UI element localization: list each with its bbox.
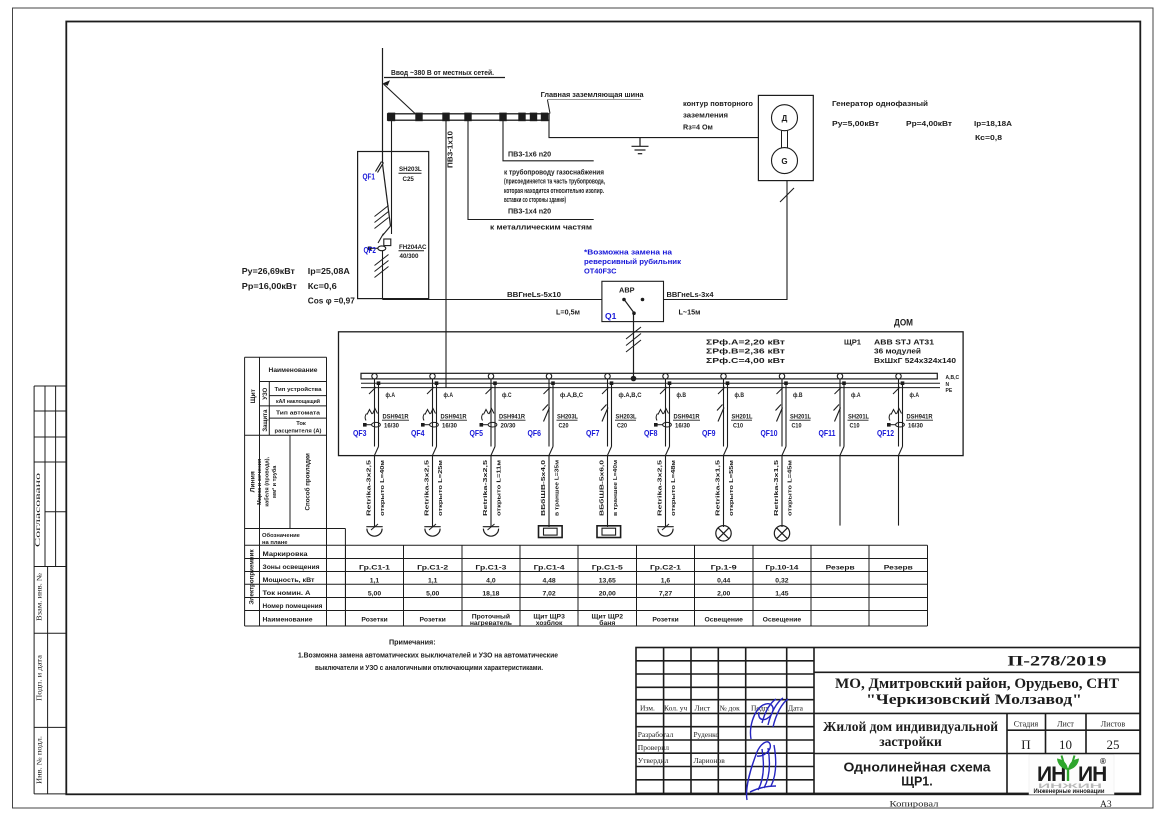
svg-text:7,02: 7,02 [542, 590, 555, 597]
svg-text:А3: А3 [1100, 800, 1112, 810]
signature scribbles [747, 698, 788, 800]
svg-text:ВБбШВ-5х6,0: ВБбШВ-5х6,0 [599, 460, 606, 516]
meter board box [358, 152, 429, 299]
breaker QF5 DSH941R [482, 409, 497, 428]
svg-text:Рр=4,00кВт: Рр=4,00кВт [906, 119, 953, 128]
breaker QF9 SH201L [717, 405, 724, 422]
svg-text:Освещение: Освещение [763, 617, 802, 624]
breaker QF1 [376, 162, 391, 227]
load symbol distribution board &#1043;&#1088;.&#1057;1-4 [539, 526, 563, 538]
svg-text:хозблок: хозблок [536, 619, 563, 627]
svg-text:Гр.С1-2: Гр.С1-2 [417, 564, 448, 571]
svg-text:Кол. уч: Кол. уч [664, 704, 688, 713]
svg-text:DSH941R: DSH941R [441, 414, 468, 420]
svg-text:1.Возможна замена автоматическ: 1.Возможна замена автоматических выключа… [298, 650, 558, 659]
wire QF6 L and N drops [548, 379, 550, 447]
svg-text:ΣРф.А=2,20 кВт: ΣРф.А=2,20 кВт [706, 338, 785, 347]
load symbol distribution board &#1043;&#1088;.&#1057;1-5 [597, 526, 621, 538]
wire: outgoing feeder &#1043;&#1088;.1-9 [723, 455, 725, 527]
svg-text:Ввод ~380 В от местных сетей.: Ввод ~380 В от местных сетей. [391, 68, 494, 77]
svg-text:открыто L=48м: открыто L=48м [671, 460, 677, 516]
svg-text:QF6: QF6 [528, 428, 542, 438]
bus А,В,С [361, 373, 937, 379]
svg-text:C20: C20 [559, 423, 570, 429]
svg-text:мм² и труба: мм² и труба [271, 465, 278, 498]
svg-text:ф.В: ф.В [677, 392, 687, 399]
svg-text:(присоединяется та часть трубо: (присоединяется та часть трубопровода, [504, 177, 605, 186]
svg-text:открыто L=11м: открыто L=11м [497, 460, 503, 516]
svg-text:QF3: QF3 [353, 428, 367, 438]
wire QF7 L and N drops [607, 379, 609, 447]
svg-text:SH201L: SH201L [790, 414, 811, 420]
wire QF12 L and N drops [898, 379, 900, 447]
svg-text:застройки: застройки [879, 734, 942, 749]
svg-text:Розетки: Розетки [652, 617, 678, 624]
svg-text:25: 25 [1107, 737, 1120, 752]
svg-text:18,18: 18,18 [482, 590, 499, 597]
load symbol socket &#1043;&#1088;.&#1057;1-2 [424, 527, 440, 537]
svg-text:ф.С: ф.С [502, 392, 512, 399]
svg-text:ΣРф.С=4,00 кВт: ΣРф.С=4,00 кВт [706, 356, 785, 365]
logo ИНЖИН [1029, 755, 1114, 795]
svg-text:Retrika-3х2,5: Retrika-3х2,5 [425, 459, 431, 516]
svg-text:®: ® [1100, 757, 1106, 766]
svg-text:в траншее L=35м: в траншее L=35м [555, 460, 561, 516]
svg-text:Обозначение: Обозначение [262, 532, 301, 539]
svg-text:QF10: QF10 [761, 428, 778, 438]
wire QF5 L and N drops [490, 379, 492, 447]
svg-text:0,32: 0,32 [775, 577, 788, 584]
svg-text:Генератор однофазный: Генератор однофазный [832, 99, 928, 108]
svg-text:нагреватель: нагреватель [470, 620, 512, 627]
svg-text:DSH941R: DSH941R [674, 414, 701, 420]
svg-text:Марка и сечения: Марка и сечения [257, 459, 263, 505]
svg-text:Однолинейная схема: Однолинейная схема [844, 761, 992, 775]
svg-text:Резерв: Резерв [884, 564, 913, 571]
breaker QF11 SH201L [834, 405, 841, 422]
wire: outgoing feeder &#1043;&#1088;.&#1057;1-5 [607, 455, 609, 527]
svg-text:Инженерные инновации: Инженерные инновации [1034, 788, 1105, 795]
left attribute strip table [34, 386, 66, 794]
svg-text:Гр.10-14: Гр.10-14 [765, 564, 798, 571]
svg-text:Инв. № подл.: Инв. № подл. [36, 736, 44, 784]
svg-text:Гр.С1-4: Гр.С1-4 [534, 564, 565, 571]
svg-text:Взам. инв. №: Взам. инв. № [36, 573, 44, 621]
svg-text:Розетки: Розетки [361, 617, 387, 624]
svg-text:*Возможна замена на: *Возможна замена на [584, 248, 673, 257]
svg-text:Зоны освещения: Зоны освещения [263, 564, 320, 571]
svg-text:SH201L: SH201L [848, 414, 869, 420]
svg-text:Кс=0,8: Кс=0,8 [975, 133, 1002, 142]
svg-text:ф.А: ф.А [444, 392, 454, 399]
breaker QF4 DSH941R [423, 409, 438, 428]
svg-text:Электроприемник: Электроприемник [249, 549, 256, 605]
svg-text:16/30: 16/30 [675, 423, 691, 429]
svg-text:А,В,С: А,В,С [946, 375, 960, 381]
svg-text:Главная заземляющая шина: Главная заземляющая шина [541, 90, 645, 99]
svg-text:Retrika-3х1,5: Retrika-3х1,5 [774, 459, 780, 516]
branch QF11 tap on bus [837, 374, 842, 379]
svg-text:Розетки: Розетки [420, 617, 446, 624]
svg-text:Лист: Лист [695, 704, 711, 713]
svg-text:УЗО: УЗО [263, 387, 269, 399]
wire: ПВЗ-1x10 PE conductor to panel [445, 121, 447, 388]
svg-text:реверсивный рубильник: реверсивный рубильник [584, 257, 681, 266]
wire: АВР output drop to panel bus [633, 322, 635, 379]
consumer table grid [245, 545, 928, 626]
svg-text:Освещение: Освещение [704, 617, 743, 624]
wire QF9 L and N drops [723, 379, 725, 447]
wire: outgoing feeder &#1043;&#1088;.&#1057;2-1 [665, 455, 667, 527]
svg-text:C25: C25 [403, 176, 415, 183]
leader arrow to supply line [383, 80, 391, 86]
svg-text:ВВГнеLs-5х10: ВВГнеLs-5х10 [507, 290, 561, 299]
svg-text:1,1: 1,1 [370, 577, 380, 584]
svg-text:ПВ3-1х4 n20: ПВ3-1х4 n20 [508, 207, 551, 216]
svg-text:АВР: АВР [619, 286, 635, 295]
wire: reserve feeder QF11 [839, 455, 841, 525]
main earthing bus ГЗШ [388, 114, 549, 120]
svg-text:открыто L=45м: открыто L=45м [788, 460, 794, 516]
svg-text:5,00: 5,00 [368, 590, 381, 597]
wire QF10 L and N drops [781, 379, 783, 447]
load symbol lamp &#1043;&#1088;.10-14 [774, 526, 789, 541]
svg-text:40/300: 40/300 [400, 253, 419, 260]
svg-text:Тип автомата: Тип автомата [276, 411, 321, 417]
svg-text:ВВГнеLs-3х4: ВВГнеLs-3х4 [667, 290, 714, 299]
svg-text:7,27: 7,27 [659, 590, 672, 597]
svg-text:Руденко: Руденко [694, 730, 720, 739]
svg-text:Рр=16,00кВт: Рр=16,00кВт [242, 281, 297, 291]
branch QF3 tap on bus [372, 374, 377, 379]
branch QF10 tap on bus [779, 374, 784, 379]
svg-text:1,6: 1,6 [661, 577, 671, 584]
svg-text:Маркировка: Маркировка [263, 551, 309, 558]
breaker QF10 SH201L [776, 405, 783, 422]
title block grid [636, 648, 1140, 794]
svg-text:открыто L=55м: открыто L=55м [729, 460, 735, 516]
svg-text:Д: Д [782, 114, 788, 123]
contact slash QF11 [835, 387, 842, 394]
svg-text:DSH941R: DSH941R [499, 414, 526, 420]
svg-text:C20: C20 [617, 423, 628, 429]
wire: bus to repeated earthing contour and generator [549, 121, 758, 138]
svg-text:Ток номин. А: Ток номин. А [263, 590, 312, 597]
svg-text:C10: C10 [850, 423, 861, 429]
svg-text:ЩР1: ЩР1 [844, 338, 862, 347]
wire: outgoing feeder &#1043;&#1088;.&#1057;1-1 [374, 455, 376, 527]
shaft coupling [782, 131, 788, 148]
contact slash QF3 [369, 387, 376, 394]
phase slashes on АВР output [626, 327, 641, 352]
svg-text:ВБбШВ-5х4,0: ВБбШВ-5х4,0 [540, 460, 547, 516]
svg-text:Гр.1-9: Гр.1-9 [711, 564, 737, 571]
svg-text:Iр=25,08А: Iр=25,08А [308, 266, 350, 276]
svg-text:Листов: Листов [1101, 720, 1126, 729]
svg-text:П-278/2019: П-278/2019 [1008, 654, 1107, 670]
svg-text:Ларионов: Ларионов [694, 756, 726, 765]
svg-text:36 модулей: 36 модулей [874, 347, 921, 356]
svg-text:Retrika-3х1,5: Retrika-3х1,5 [716, 459, 722, 516]
svg-text:5,00: 5,00 [426, 590, 439, 597]
svg-text:ф.А,В,С: ф.А,В,С [560, 392, 584, 399]
svg-text:ф.А: ф.А [851, 392, 861, 399]
wire: reserve feeder QF12 [898, 455, 900, 525]
wire: generator feeder [664, 181, 788, 300]
svg-text:2,00: 2,00 [717, 590, 730, 597]
svg-text:10: 10 [1059, 737, 1072, 752]
ground electrode symbol [632, 138, 649, 154]
contact slash QF7 [602, 387, 609, 394]
branch QF6 tap on bus [546, 374, 551, 379]
svg-text:G: G [781, 157, 787, 166]
svg-text:ф.В: ф.В [793, 392, 803, 399]
svg-text:открыто L=25м: открыто L=25м [438, 460, 444, 516]
svg-text:Rз=4 Ом: Rз=4 Ом [683, 123, 713, 132]
svg-text:Кс=0,6: Кс=0,6 [308, 281, 337, 291]
svg-text:Копировал: Копировал [890, 799, 940, 809]
branch QF7 tap on bus [605, 374, 610, 379]
АВР changeover switch Q1 [602, 281, 664, 321]
svg-text:Наименование: Наименование [263, 617, 314, 624]
svg-text:PE: PE [946, 388, 953, 394]
svg-text:ф.В: ф.В [735, 392, 745, 399]
svg-text:Cos φ =0,97: Cos φ =0,97 [308, 296, 355, 306]
svg-text:контур повторного: контур повторного [683, 99, 754, 108]
svg-text:заземления: заземления [683, 111, 728, 120]
wire: PEN drop into meter board [391, 121, 393, 153]
load symbol socket &#1043;&#1088;.&#1057;1-1 [366, 527, 382, 537]
svg-text:расцепителя (А): расцепителя (А) [275, 429, 322, 435]
svg-text:Гр.С1-5: Гр.С1-5 [592, 564, 623, 571]
svg-text:Q1: Q1 [605, 311, 617, 321]
wire QF4 L and N drops [432, 379, 434, 447]
svg-text:кА/I наклощащий: кА/I наклощащий [276, 398, 320, 405]
breaker QF3 DSH941R [365, 409, 380, 428]
generator engine circle Д [772, 105, 798, 131]
svg-text:Retrika-3х2,5: Retrika-3х2,5 [483, 459, 489, 516]
svg-text:Наименование: Наименование [269, 367, 318, 374]
svg-text:Защита: Защита [263, 409, 269, 432]
svg-text:Ток: Ток [296, 421, 306, 427]
single-phase slash on generator feeder [780, 188, 794, 202]
svg-text:№ док: № док [720, 704, 741, 713]
breaker QF7 SH203L [601, 405, 608, 422]
bus N [361, 382, 940, 384]
svg-text:Тип устройства: Тип устройства [275, 386, 323, 393]
svg-text:баня: баня [599, 619, 615, 627]
RCD QF2 [383, 226, 391, 236]
svg-text:Гр.С1-1: Гр.С1-1 [359, 564, 390, 571]
svg-text:кабеля (провода),: кабеля (провода), [264, 457, 271, 507]
svg-text:Ру=26,69кВт: Ру=26,69кВт [242, 266, 295, 276]
svg-text:ВхШхГ 524х324х140: ВхШхГ 524х324х140 [874, 356, 956, 365]
svg-text:SH203L: SH203L [557, 414, 578, 420]
svg-text:QF7: QF7 [586, 428, 600, 438]
load symbol socket &#1043;&#1088;.&#1057;1-3 [483, 527, 499, 537]
svg-text:Способ прокладки: Способ прокладки [305, 453, 312, 511]
panel ЩР1 box [339, 332, 964, 456]
svg-text:Подп. и дата: Подп. и дата [36, 654, 44, 701]
svg-text:ф.А,В,С: ф.А,В,С [619, 392, 643, 399]
contact slash QF12 [893, 387, 900, 394]
svg-text:20,00: 20,00 [599, 590, 616, 597]
svg-text:ПВ3-1х6 n20: ПВ3-1х6 n20 [508, 150, 551, 159]
wire: outgoing feeder &#1043;&#1088;.&#1057;1-4 [548, 455, 550, 527]
svg-text:Разработал: Разработал [638, 730, 674, 739]
svg-text:DSH941R: DSH941R [383, 414, 410, 420]
wire: N conductor inside board [391, 152, 393, 234]
svg-text:QF8: QF8 [644, 428, 658, 438]
svg-text:20/30: 20/30 [501, 423, 517, 429]
branch QF8 tap on bus [663, 374, 668, 379]
svg-text:1,1: 1,1 [428, 577, 438, 584]
load symbol lamp &#1043;&#1088;.1-9 [716, 526, 731, 541]
svg-text:Линия: Линия [250, 471, 257, 492]
svg-text:Retrika-3х2,5: Retrika-3х2,5 [658, 459, 664, 516]
contact slash QF8 [660, 387, 667, 394]
svg-text:выключатели и УЗО с аналогичны: выключатели и УЗО с аналогичными отключа… [315, 663, 543, 672]
svg-text:Гр.С1-3: Гр.С1-3 [475, 564, 506, 571]
svg-text:FH204AC: FH204AC [399, 244, 427, 251]
svg-text:Retrika-3х2,5: Retrika-3х2,5 [367, 459, 373, 516]
svg-text:Мощность, кВт: Мощность, кВт [263, 577, 315, 584]
svg-text:Жилой дом индивидуальной: Жилой дом индивидуальной [823, 719, 998, 734]
contact slash QF5 [486, 387, 493, 394]
contact slash QF10 [777, 387, 784, 394]
svg-text:к трубопроводу газоснабжения: к трубопроводу газоснабжения [504, 168, 604, 177]
wire: ПВЗ-1x6 to gas pipe [503, 121, 594, 161]
svg-text:АВВ STJ АТ31: АВВ STJ АТ31 [874, 338, 935, 347]
wire: outgoing feeder &#1043;&#1088;.10-14 [781, 455, 783, 527]
svg-text:QF4: QF4 [411, 428, 425, 438]
svg-text:L~15м: L~15м [679, 308, 701, 317]
branch QF4 tap on bus [430, 374, 435, 379]
svg-text:Номер помещения: Номер помещения [263, 603, 323, 610]
svg-text:Проверил: Проверил [638, 743, 670, 752]
svg-text:C10: C10 [733, 423, 744, 429]
svg-text:Резерв: Резерв [826, 564, 855, 571]
svg-text:16/30: 16/30 [908, 423, 924, 429]
branch QF5 tap on bus [488, 374, 493, 379]
contact slash QF9 [718, 387, 725, 394]
contact slash QF6 [544, 387, 551, 394]
contact slash QF4 [427, 387, 434, 394]
svg-text:QF11: QF11 [819, 428, 836, 438]
parameter header table [245, 357, 346, 626]
wire: mains to АВР [383, 299, 602, 301]
svg-text:QF12: QF12 [877, 428, 894, 438]
svg-text:C10: C10 [792, 423, 803, 429]
svg-text:SH201L: SH201L [732, 414, 753, 420]
svg-text:к металлическим частям: к металлическим частям [490, 223, 592, 232]
load symbol socket &#1043;&#1088;.&#1057;2-1 [657, 527, 673, 536]
branch QF9 tap on bus [721, 374, 726, 379]
svg-text:Лист: Лист [1057, 720, 1074, 729]
phase slashes below QF2 [375, 255, 389, 278]
svg-text:4,0: 4,0 [486, 577, 496, 584]
svg-text:МО, Дмитровский район, Орудьев: МО, Дмитровский район, Орудьево, СНТ [835, 676, 1119, 692]
svg-text:ф.А: ф.А [386, 392, 396, 399]
phase slashes between QF1 and QF2 [375, 206, 389, 229]
generator unit box [758, 95, 813, 180]
svg-text:SH203L: SH203L [399, 166, 422, 173]
svg-text:ф.А: ф.А [910, 392, 920, 399]
svg-text:0,44: 0,44 [717, 577, 730, 584]
svg-text:вставки со стороны здания): вставки со стороны здания) [504, 195, 566, 204]
wire: ПВЗ-1x4 to metal parts [468, 121, 594, 220]
svg-text:Дата: Дата [788, 704, 804, 713]
svg-text:открыто L=40м: открыто L=40м [380, 460, 386, 516]
svg-text:ДОМ: ДОМ [894, 318, 913, 329]
svg-text:13,65: 13,65 [599, 577, 616, 584]
svg-text:4,48: 4,48 [542, 577, 555, 584]
svg-text:в траншее L=40м: в траншее L=40м [613, 460, 619, 516]
svg-text:Iр=18,18А: Iр=18,18А [974, 119, 1012, 128]
svg-text:Согласовано: Согласовано [33, 473, 42, 547]
svg-text:QF1: QF1 [363, 173, 376, 182]
svg-text:16/30: 16/30 [442, 423, 458, 429]
svg-text:ЩР1.: ЩР1. [901, 775, 933, 789]
wire: outgoing feeder &#1043;&#1088;.&#1057;1-2 [432, 455, 434, 527]
wire QF3 L and N drops [374, 379, 376, 447]
svg-text:16/30: 16/30 [384, 423, 400, 429]
wire QF11 L and N drops [839, 379, 841, 447]
svg-text:ΣРф.В=2,36 кВт: ΣРф.В=2,36 кВт [706, 347, 785, 356]
svg-text:Утвердил: Утвердил [638, 756, 669, 765]
svg-text:L=0,5м: L=0,5м [556, 308, 580, 317]
svg-text:DSH941R: DSH941R [907, 414, 934, 420]
svg-text:QF5: QF5 [470, 428, 484, 438]
generator circle G [772, 148, 798, 174]
svg-text:"Черкизовский Молзавод": "Черкизовский Молзавод" [866, 692, 1082, 708]
svg-text:Примечания:: Примечания: [389, 638, 436, 647]
svg-text:QF2: QF2 [364, 246, 377, 255]
svg-text:1,45: 1,45 [775, 590, 788, 597]
svg-text:Гр.С2-1: Гр.С2-1 [650, 564, 681, 571]
bus PE [361, 387, 940, 389]
svg-text:Щит: Щит [250, 388, 257, 403]
svg-text:которая находится относительно: которая находится относительно изолир. [504, 186, 604, 195]
svg-text:Ру=5,00кВт: Ру=5,00кВт [832, 119, 880, 128]
svg-text:ОТ40F3С: ОТ40F3С [584, 267, 617, 276]
svg-text:ПВ3-1х10: ПВ3-1х10 [446, 131, 455, 168]
svg-text:SH203L: SH203L [616, 414, 637, 420]
svg-text:QF9: QF9 [702, 428, 716, 438]
svg-text:Изм.: Изм. [640, 704, 655, 713]
svg-text:П: П [1021, 737, 1030, 752]
breaker QF8 DSH941R [656, 409, 671, 428]
wire: incoming supply line [382, 48, 384, 163]
wire QF8 L and N drops [665, 379, 667, 447]
wire: outgoing feeder &#1043;&#1088;.&#1057;1-3 [490, 455, 492, 527]
breaker QF12 DSH941R [889, 409, 904, 428]
svg-text:Стадия: Стадия [1014, 720, 1039, 729]
branch QF12 tap on bus [896, 374, 901, 379]
breaker QF6 SH203L [543, 405, 550, 422]
